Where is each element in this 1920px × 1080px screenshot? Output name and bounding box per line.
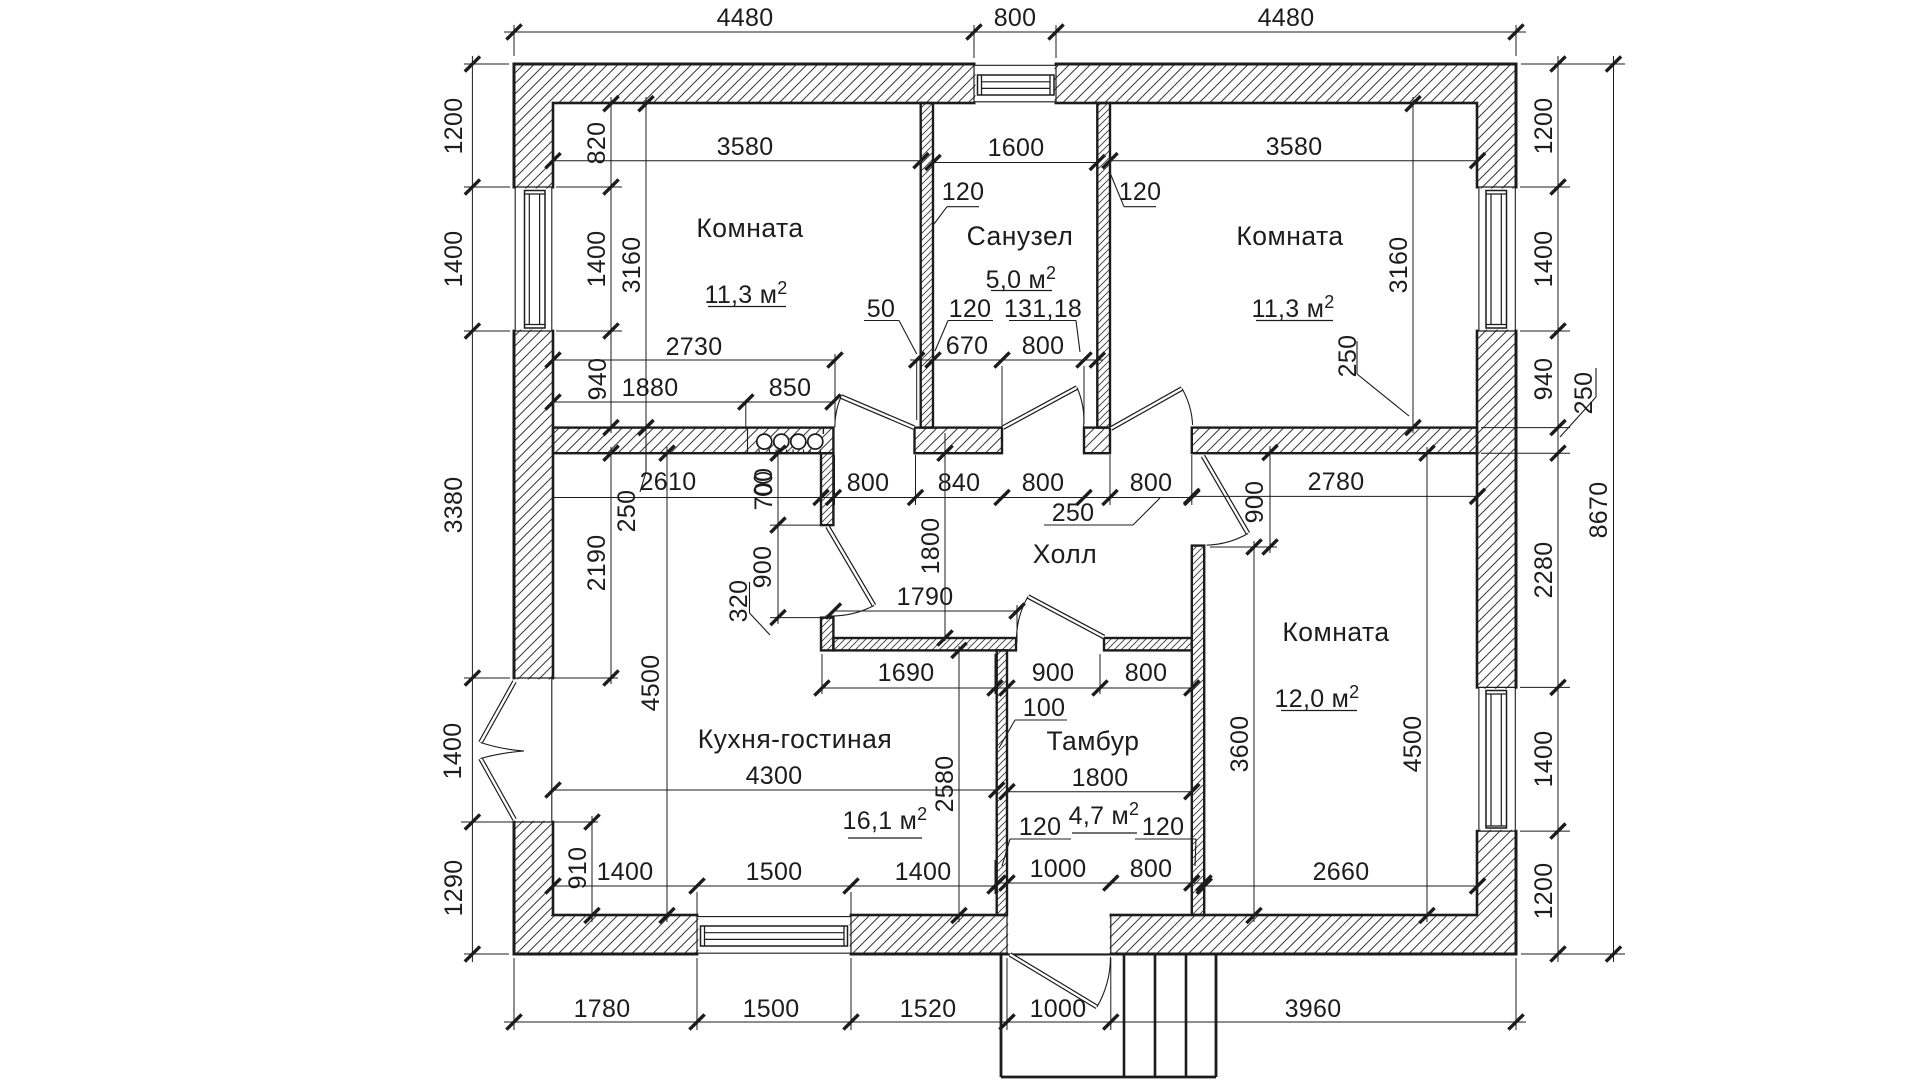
svg-text:120: 120 (942, 178, 985, 206)
bottom outer chain 1780/1500/1520/1000/3960 (504, 1021, 1526, 1023)
svg-text:120: 120 (1119, 178, 1162, 206)
670/800 chain at sanuzel (910, 359, 1103, 361)
partition Q2 kitchen/hall lower piece (821, 618, 833, 651)
svg-text:4500: 4500 (1399, 716, 1427, 773)
svg-text:1400: 1400 (583, 231, 611, 288)
svg-text:250: 250 (613, 490, 641, 533)
svg-text:Тамбур: Тамбур (1047, 726, 1140, 756)
svg-text:3580: 3580 (1266, 133, 1323, 161)
svg-text:3160: 3160 (1385, 237, 1413, 294)
svg-text:4,7 м2: 4,7 м2 (1069, 799, 1140, 830)
svg-text:Санузел: Санузел (967, 221, 1074, 251)
right window upper (1400) (1475, 189, 1520, 330)
interior wall A3 (250 piece between D2 and D3) (1084, 428, 1110, 454)
svg-text:800: 800 (1125, 659, 1168, 687)
svg-text:250: 250 (1334, 335, 1362, 378)
svg-text:1200: 1200 (1530, 98, 1558, 155)
entrance door opening in bottom wall (1000) (1008, 914, 1109, 954)
door D2 to sanuzel (800) (1003, 388, 1077, 428)
svg-text:1400: 1400 (1530, 731, 1558, 788)
svg-text:50: 50 (867, 295, 895, 323)
svg-text:4480: 4480 (717, 4, 774, 32)
svg-text:4300: 4300 (746, 762, 803, 790)
900 vertical dim door D4 (777, 519, 779, 624)
svg-text:900: 900 (749, 546, 777, 589)
svg-text:3600: 3600 (1226, 716, 1254, 773)
svg-text:120: 120 (1019, 813, 1062, 841)
svg-text:2610: 2610 (640, 468, 697, 496)
svg-text:1200: 1200 (1530, 863, 1558, 920)
left window opening (1400) (512, 189, 556, 330)
1790 dimension hall (833, 610, 1017, 612)
svg-text:Кухня-гостиная: Кухня-гостиная (698, 724, 892, 754)
svg-text:3580: 3580 (717, 133, 774, 161)
svg-text:1800: 1800 (1072, 764, 1129, 792)
4300 dimension kitchen (553, 789, 997, 791)
svg-text:5,0 м2: 5,0 м2 (986, 263, 1057, 294)
partition P2 (120, right of sanuzel) (1097, 103, 1110, 428)
room3 west wall T2 (120) (1192, 546, 1204, 915)
right lower window frame (1486, 691, 1507, 829)
1800 dimension tambour (1007, 791, 1192, 793)
svg-text:Холл: Холл (1033, 539, 1097, 569)
right window lower (1400) (1475, 689, 1520, 830)
door D4 kitchen-hall (900) (828, 527, 875, 606)
2660 dimension room3 (1204, 885, 1478, 887)
4500 vertical dim kitchen (666, 447, 668, 922)
svg-text:1200: 1200 (440, 98, 468, 155)
svg-text:1800: 1800 (917, 518, 945, 575)
partition Q1 kitchen/hall upper piece (821, 453, 833, 525)
right upper window frame (1486, 191, 1507, 329)
svg-text:840: 840 (938, 469, 981, 497)
svg-text:2780: 2780 (1308, 468, 1365, 496)
svg-text:16,1 м2: 16,1 м2 (843, 804, 928, 835)
two oval flues below wall (754, 473, 771, 483)
svg-text:1500: 1500 (743, 995, 800, 1023)
2190 vertical dim kitchen (610, 447, 612, 684)
800/840/800/800 chain below wall A (553, 497, 1192, 499)
svg-text:1400: 1400 (1530, 231, 1558, 288)
svg-text:3160: 3160 (618, 237, 646, 294)
svg-text:1880: 1880 (622, 374, 679, 402)
svg-text:1600: 1600 (988, 134, 1045, 162)
svg-text:2190: 2190 (583, 535, 611, 592)
top window frame (978, 75, 1055, 95)
svg-text:4500: 4500 (637, 655, 665, 712)
700 vertical dim partition piece (777, 447, 779, 531)
svg-text:900: 900 (1032, 659, 1075, 687)
left window frame (525, 191, 546, 329)
2780 dimension room3 (1192, 495, 1478, 497)
room2 3160 chain (1412, 97, 1414, 433)
svg-text:800: 800 (1022, 469, 1065, 497)
door D5 hall-tambour (900) (1028, 597, 1104, 638)
svg-text:320: 320 (725, 580, 753, 623)
900 vertical dim door D6 (1269, 446, 1271, 553)
svg-text:1500: 1500 (746, 858, 803, 886)
svg-text:900: 900 (1241, 481, 1269, 524)
interior wall A4 (right 250 wall under top rooms) (1192, 428, 1477, 454)
svg-text:1000: 1000 (1030, 995, 1087, 1023)
svg-text:1780: 1780 (574, 995, 631, 1023)
top dimension chain 4480/800/4480 (504, 31, 1526, 33)
window and door jamb lines (973, 64, 975, 103)
left wall opening to kitchen (1400) with open leaves (512, 679, 556, 820)
porch with steps (1000, 955, 1003, 1077)
tambour west partition T1 (100) (997, 650, 1007, 915)
bottom window opening (1500) (698, 913, 849, 958)
svg-text:1690: 1690 (878, 659, 935, 687)
svg-text:2280: 2280 (1530, 542, 1558, 599)
svg-text:1400: 1400 (597, 858, 654, 886)
2730 dimension (553, 359, 835, 361)
svg-text:850: 850 (769, 374, 812, 402)
svg-text:1400: 1400 (439, 723, 467, 780)
svg-text:800: 800 (1130, 469, 1173, 497)
svg-text:250: 250 (1570, 372, 1598, 415)
vent channels in wall (4 circles) (747, 428, 749, 454)
svg-text:1000: 1000 (1030, 855, 1087, 883)
svg-text:940: 940 (1530, 358, 1558, 401)
1000/800 chain tambour bottom (998, 882, 1208, 884)
door D3 to room2 (800) (1111, 389, 1182, 429)
room1 inner left chain 820/1400/940 (610, 97, 612, 433)
room1 3160 chain (645, 97, 647, 433)
svg-text:670: 670 (946, 332, 989, 360)
sanuzel 1600 dimension (933, 162, 1097, 164)
entrance door leaf (1010, 955, 1097, 1008)
tambour north wall west piece B1 (833, 638, 1016, 650)
svg-text:2660: 2660 (1313, 858, 1370, 886)
svg-text:800: 800 (1022, 332, 1065, 360)
svg-text:700: 700 (750, 468, 778, 511)
tambour north wall east piece B2 (1104, 638, 1192, 650)
svg-text:Комната: Комната (1236, 221, 1343, 251)
svg-text:Комната: Комната (1282, 617, 1389, 647)
svg-text:3960: 3960 (1285, 995, 1342, 1023)
svg-text:4480: 4480 (1258, 4, 1315, 32)
room1 3580 dimension (553, 160, 921, 162)
svg-text:1290: 1290 (440, 860, 468, 917)
svg-text:1520: 1520 (900, 995, 957, 1023)
910 vertical dim (591, 816, 593, 922)
1800 vertical dim hall (944, 433, 946, 641)
svg-text:3380: 3380 (440, 477, 468, 534)
left outer chain 1200/1400/3380/1400/1290 (471, 56, 473, 962)
svg-text:2580: 2580 (931, 756, 959, 813)
svg-text:11,3 м2: 11,3 м2 (1251, 292, 1334, 323)
outer wall ring (514, 64, 1516, 954)
right outer chain 1200/1400/940/2280/1400/1200 (1557, 56, 1559, 962)
svg-text:1400: 1400 (440, 231, 468, 288)
1880/850 chain (553, 401, 835, 403)
top window opening (sanuzel 800) (976, 62, 1055, 106)
partition P1 (120, left of sanuzel) (921, 103, 933, 428)
svg-text:800: 800 (847, 469, 890, 497)
svg-text:800: 800 (994, 4, 1037, 32)
svg-text:131,18: 131,18 (1004, 295, 1082, 323)
svg-text:Комната: Комната (696, 213, 803, 243)
svg-text:11,3 м2: 11,3 м2 (704, 278, 787, 309)
8670 overall right chain (1613, 56, 1615, 962)
interior wall A2 (between door D1 and D2) (915, 428, 1003, 454)
svg-text:800: 800 (1130, 855, 1173, 883)
4500 vertical dim room3 (1426, 447, 1428, 922)
interior wall A1 (left 250 wall under top rooms) (553, 428, 833, 454)
3600 vertical dim room3 (1253, 541, 1255, 922)
room2 3580 dimension (1110, 160, 1478, 162)
bottom window frame (701, 926, 848, 946)
1690/900/800 chain (822, 687, 1192, 689)
svg-text:120: 120 (949, 295, 992, 323)
svg-text:8670: 8670 (1585, 482, 1613, 539)
svg-text:910: 910 (564, 847, 592, 890)
2580 vertical dim tambour (958, 646, 960, 922)
svg-text:12,0 м2: 12,0 м2 (1275, 682, 1360, 713)
svg-text:820: 820 (583, 122, 611, 165)
door D1 to room1 (800) (841, 397, 914, 428)
kitchen bottom inner chain 1400/1500/1400 (553, 885, 995, 887)
svg-text:120: 120 (1142, 813, 1185, 841)
svg-text:940: 940 (584, 358, 612, 401)
svg-text:2730: 2730 (666, 333, 723, 361)
door D6 hall-room3 (900) (1203, 456, 1248, 534)
svg-text:1400: 1400 (895, 858, 952, 886)
svg-text:100: 100 (1023, 694, 1066, 722)
svg-text:250: 250 (1052, 499, 1095, 527)
